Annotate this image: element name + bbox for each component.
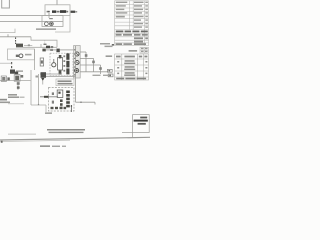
ignition switch SW1 enclosure (dashed): [50, 53, 73, 76]
diode D1 marks: [44, 44, 47, 45]
label box (module title): [56, 79, 74, 86]
parts header text: [116, 56, 121, 58]
motor M1: [45, 22, 49, 26]
label (regulator note): [100, 43, 110, 45]
stud terminal: [70, 105, 72, 112]
diode D5: [41, 78, 44, 81]
generator G symbol: [75, 52, 79, 56]
label text: [16, 70, 23, 72]
motor M2: [50, 22, 54, 26]
splice (thick): [44, 96, 49, 98]
footer rule: [0, 137, 150, 140]
legend text mid column: [134, 2, 144, 28]
parts rows text: [117, 60, 147, 76]
relay K2: [46, 46, 50, 49]
connector P1 dashed drop: [15, 37, 16, 44]
label text under wires: [93, 75, 101, 76]
wire stub: [7, 34, 9, 37]
diode D2: [85, 54, 88, 57]
starter motor symbol: [75, 60, 79, 64]
wire bottom left tie: [31, 104, 46, 106]
wire vertical V4: [38, 74, 40, 104]
wire bus H2: [0, 21, 63, 23]
pin marks above motors: [49, 18, 53, 19]
wire dashed drop: [44, 40, 46, 43]
contact dots: [63, 55, 65, 57]
wafer marks: [59, 55, 62, 58]
sheet grid (small): [140, 47, 149, 53]
wire stub: [94, 102, 96, 104]
wire (long right-side vertical): [75, 46, 77, 102]
diode D4: [99, 67, 102, 70]
wire: [60, 49, 76, 51]
connector dashes (left column): [11, 62, 12, 68]
wire (mid row): [16, 46, 57, 48]
wire row W2: [80, 57, 94, 59]
label text B: [0, 99, 7, 101]
title block: [133, 115, 150, 133]
wire: [17, 81, 19, 90]
wire drop V3: [100, 65, 102, 74]
fuse F1 row (dark chain): [52, 10, 66, 13]
wire drop V2: [93, 58, 95, 71]
pointer mark: [112, 44, 114, 46]
wire: [46, 49, 56, 51]
connector J1 (top-left corner box): [2, 0, 10, 8]
label text left of module: [45, 112, 52, 114]
relay K1 (right of fuse box): [71, 11, 76, 13]
label text: [8, 94, 17, 96]
wire (top feed into fuse box): [56, 0, 58, 5]
label (control box title text): [36, 28, 56, 30]
diode D3: [92, 61, 95, 64]
node (junction dot): [48, 11, 49, 12]
figure caption text: [8, 134, 36, 135]
resistor block R2 (left of switch): [40, 58, 43, 66]
wire row W4: [80, 71, 108, 73]
page number text: [40, 145, 50, 147]
fuse box U1 outline: [45, 5, 70, 16]
contact column B: [66, 91, 70, 108]
wire (drop from fuse row to bus): [48, 13, 50, 16]
page margin tick: [1, 141, 3, 143]
key symbol: [52, 63, 56, 67]
wire: [42, 81, 44, 85]
switch wafer box: [58, 58, 63, 70]
contact column A: [60, 99, 63, 108]
control module box: [49, 88, 75, 112]
wire (bottom-right run): [76, 101, 96, 103]
connector blob: [7, 77, 9, 80]
seat switch S3: [14, 75, 20, 82]
magneto symbol: [75, 68, 79, 72]
legend right numbers: [145, 2, 148, 28]
legend text left column: [116, 2, 128, 18]
wire bus H1: [0, 15, 63, 17]
relay terminal: [21, 75, 24, 78]
fuse F2 links: [47, 11, 69, 13]
rectifier block CR2: [41, 72, 47, 78]
node dot: [80, 102, 81, 103]
wire (right vertical of cluster): [34, 49, 36, 70]
PTO switch S2: [1, 76, 6, 81]
title text lines: [140, 117, 147, 119]
lamp L1 marks: [16, 55, 19, 57]
aux contacts: [52, 92, 54, 103]
wire H3 (left feed): [0, 36, 31, 38]
parts footer row: [116, 78, 146, 80]
terminal row at module bottom: [51, 107, 67, 109]
wire color code header: [116, 31, 148, 33]
switch S1 (hatched block): [16, 44, 23, 47]
gauge G1: [19, 54, 23, 58]
node dots: [38, 104, 39, 105]
color code row: [116, 34, 148, 45]
ignition coil T1: [15, 72, 18, 75]
wire (section boundary left): [0, 29, 15, 33]
label text: [25, 54, 32, 56]
instrument cluster box: [8, 49, 35, 60]
side note text: [106, 55, 113, 57]
wire row W3: [80, 64, 101, 66]
connector C3 drop: [17, 82, 20, 85]
wire into module: [40, 96, 58, 98]
switch rotor bar: [66, 53, 69, 74]
rectifier CR1 cluster: [107, 69, 112, 72]
splice tick: [28, 45, 30, 47]
legend table (top right): [115, 1, 149, 46]
wire (top of relay box): [31, 37, 32, 40]
pin ticks: [74, 49, 75, 75]
relay coil box: [57, 90, 63, 98]
solenoid SOL cluster row: [42, 49, 45, 52]
wire (long left vertical): [30, 70, 32, 105]
wire top of module: [46, 75, 76, 77]
wire (bottom tie): [40, 73, 62, 75]
wire stub to relay: [40, 44, 42, 47]
motor box M enclosure: [42, 16, 63, 27]
engine ground block E1: [74, 46, 81, 79]
wire drop V1: [85, 52, 87, 72]
rheostat R1: [10, 70, 15, 74]
wire (section boundary right): [55, 14, 70, 33]
wire (PTO row): [0, 80, 31, 82]
wire row W1: [80, 51, 86, 53]
parts table: [115, 54, 149, 80]
wire (left feed): [0, 62, 12, 64]
